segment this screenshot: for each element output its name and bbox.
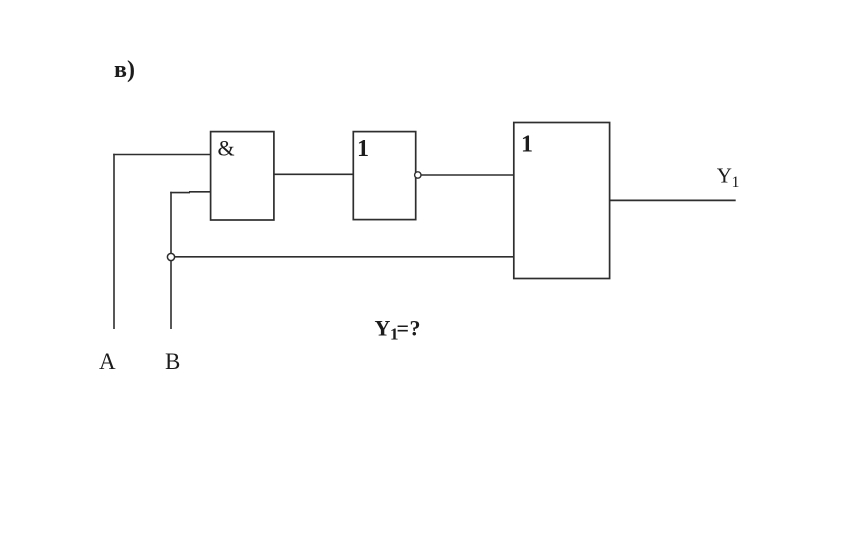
OR gate DD3 box bbox=[514, 123, 610, 279]
svg-text:Y: Y bbox=[375, 316, 391, 341]
inverter bubble bbox=[415, 172, 421, 178]
svg-text:Y: Y bbox=[717, 164, 732, 188]
wire A vertical bbox=[113, 154, 115, 329]
wire junction to OR gate second input bbox=[175, 256, 515, 258]
wire B vertical bbox=[170, 192, 172, 329]
wire B horizontal into AND gate (with jog) bbox=[170, 192, 190, 194]
svg-text:в): в) bbox=[114, 57, 135, 83]
svg-text:1: 1 bbox=[357, 136, 369, 162]
svg-text:&: & bbox=[218, 136, 235, 161]
AND gate DD1 box bbox=[211, 132, 274, 220]
svg-text:B: B bbox=[165, 349, 180, 374]
svg-text:1: 1 bbox=[521, 131, 533, 157]
junction node on B wire bbox=[167, 253, 174, 260]
wire AND output to OR-NOT input bbox=[273, 173, 354, 175]
svg-text:=?: =? bbox=[397, 316, 422, 341]
wire OR gate output Y1 bbox=[609, 199, 736, 201]
svg-text:A: A bbox=[99, 349, 116, 374]
wire A horizontal into AND gate bbox=[113, 154, 211, 156]
wire inverter bubble to OR gate input bbox=[421, 174, 514, 176]
OR-NOT gate DD2 box bbox=[353, 132, 415, 220]
svg-text:1: 1 bbox=[732, 174, 740, 191]
